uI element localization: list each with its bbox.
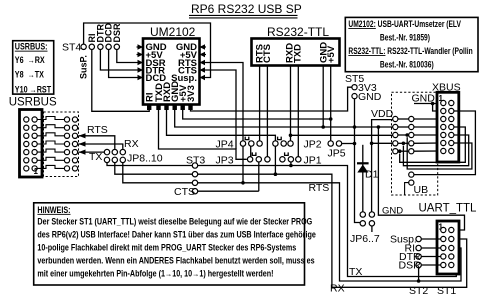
wire RX tap arrow into USRBUS row4 [79,138,139,150]
svg-text:RTS: RTS [309,182,330,194]
svg-text:DSR: DSR [112,23,122,43]
wire rail segment to dashed XBUS circle row3 [289,134,393,138]
wire JP8 row2 pin1 to ST3 pin1 [107,163,192,166]
svg-text:JP8..10: JP8..10 [127,153,163,165]
XBUS dashed-area circles column B [409,116,414,185]
wire RS232-TTL RTS drop to JP4 pin3 [259,66,261,141]
wire Susp loop: UM2102 Susp pin right, up over chip, to ST4 pin1 [84,23,211,78]
svg-text:mit einer umgekehrten Pin-Abfo: mit einer umgekehrten Pin-Abfolge (1→10,… [37,269,273,279]
wire JP5 pin2 to GND vertical [342,142,357,146]
svg-text:Best.-Nr. 810036): Best.-Nr. 810036) [380,60,434,70]
svg-text:Best.-Nr. 91859): Best.-Nr. 91859) [380,33,430,43]
wire zigzag links USRBUS to breakout pairs [37,117,64,169]
wire RS232-TTL RXD drop to JP2 pin3 [290,66,292,141]
wire DSR: ST4 pin5 down to chip DSR pin [117,50,137,63]
wire XBUS wrap W3: row6 right around bottom up to row3 link [405,133,471,169]
svg-text:USRBUS: USRBUS [9,97,57,109]
svg-text:UART_TTL: UART_TTL [419,203,478,215]
wire GND drop from rail down around to UART_TTL pin1 [377,125,465,230]
svg-text:UM2102: USB-UART-Umsetzer (ELV: UM2102: USB-UART-Umsetzer (ELV [348,19,461,29]
svg-text:ST4: ST4 [62,42,81,54]
wire RS232-TTL +5V drop to JP5 pin1 [330,66,332,141]
connector RS232-TTL module [252,25,340,66]
XBUS dashed box [392,92,438,196]
diode D1 [357,145,379,212]
wire JP2 pin1 drop to RTS line [274,146,278,176]
svg-text:TXD: TXD [293,44,304,63]
UM2102 right pin arrows and stubs [200,44,207,80]
info box UM2102 / RS232-TTL part numbers [345,17,478,71]
jumper JP3 (3 pins with cap) [216,152,271,166]
wire JP4 pin2 drop into JP3 pin1 [250,146,252,156]
svg-text:Y8 →TX: Y8 →TX [15,70,45,80]
svg-text:TX: TX [89,151,102,163]
wire XBUS wrap W1: row4 right around bottom up to row5 link [398,127,465,162]
wire UB tap: second circle with drop to dashed bottom [405,183,409,195]
wire +5V rail: chip bottom pin5 down, right to RS232-TTL +5V drop [183,110,333,121]
svg-text:des RP6(v2) USB Interface! Dah: des RP6(v2) USB Interface! Daher kann ST… [37,230,316,240]
wire UM2102 CTS: right pin down towards TXD corner [206,70,236,149]
connector XBUS header (thick box 2x7) [432,82,461,163]
svg-text:UB: UB [414,184,429,196]
jumper JP1 (3 pins with cap) label right [280,152,322,166]
connector JP6..7 (2x2 pins) [350,212,380,245]
wire RS232-TTL GND drop to GND rail [322,66,324,128]
XBUS dashed-area circles column A [393,116,398,153]
wire RTS tap arrow into USRBUS row3 [79,124,115,149]
svg-text:3V3: 3V3 [186,85,197,102]
svg-text:JP2: JP2 [304,139,322,151]
jumper JP2 (3 pins with cap) label right [273,137,322,151]
UM2102 bottom pin labels (vertical): RI TXD RXD GND +5V 3V3 [145,81,197,102]
jumper JP4 (3 pins with cap) [216,137,263,151]
wire JP9 row2 pin2 to ST3 pin2 [115,163,192,175]
wire GND rail: chip bottom pin4 down, right to dashed XBUS circle row [175,110,393,129]
svg-text:TX: TX [349,266,362,278]
svg-text:RX: RX [124,138,139,150]
svg-text:RS232-TTL: RS232-TTL-Wandler (: RS232-TTL: RS232-TTL-Wandler (Pollin [348,46,473,56]
wire TX long line: ST3 pin1 right, down, along bottom to UART pin [198,166,457,277]
svg-text:CTS: CTS [262,44,273,63]
title RP6 RS232 USB SP [189,2,302,18]
svg-text:DSR: DSR [399,260,422,272]
svg-text:verbunden werden. Wenn ein AND: verbunden werden. Wenn ein ANDERES Flach… [37,256,315,266]
wire JP1 pin2 short drop to TX line [289,162,293,167]
UM2102 pin labels right: GND +5V RTS CTS Susp. [171,42,198,84]
wire DTR: ST4 pin3 down to chip DTR pin [100,50,136,71]
svg-text:10-polige Flachkabel direkt mi: 10-polige Flachkabel direkt mit dem PROG… [37,243,296,253]
svg-text:ST2: ST2 [409,285,428,297]
svg-text:RP6 RS232 USB SP: RP6 RS232 USB SP [191,2,302,16]
connector ST4 header circles [62,42,120,54]
svg-text:JP6..7: JP6..7 [350,233,380,245]
wire CTS riser: JP3 pin2 down to CTS line [258,162,260,191]
wire RI: ST4 pin2 down to RI rail to chip bottom pin1 [92,50,149,112]
HINWEIS note box [34,203,317,285]
wire XBUS GND label link to rows 1 and 2 [414,102,441,111]
wire ST2 DSR drop to bottom line [417,268,421,283]
connector ST2 breakout pins Susp RI DTR DSR [390,234,421,272]
wire RS232-TTL TXD drop to JP1 pin3 [297,66,299,157]
UM2102 pin labels left: GND +5V DSR DTR DCD [146,42,167,84]
wire XBUS wrap W4: row2 right around bottom to UB circle [414,111,476,175]
wire branch to dashed circle row4 [370,142,393,146]
connector USRBUS header (thick box, 2x7 circles) [20,110,43,178]
wire JP4 pin1 lower drop to RX bottom line [241,146,245,184]
USRBUS legend box [13,41,54,95]
wire TX tap arrow into USRBUS row5 [79,150,105,164]
svg-text:Der Stecker ST1 (UART_TTL) wei: Der Stecker ST1 (UART_TTL) weist dieselb… [37,217,312,227]
connector ST3 (4 pins vertical) [174,155,205,199]
svg-text:ST1: ST1 [437,285,456,297]
wire VDD riser: JP6 pin2 up to dashed XBUS circle row1 [372,120,393,212]
wire ST2 pins to UART_TTL rows [421,239,440,265]
USRBUS dashed breakout box with pin pairs [44,112,79,177]
connector UART_TTL header (thick box 2x5) [419,203,478,275]
op-amp U1 : UM2102 USB-UART module body [143,25,200,105]
svg-text:RS232-TTL: RS232-TTL [267,25,329,39]
svg-text:Y6 →RX: Y6 →RX [15,55,45,65]
wire TXD: chip bottom pin2 down, right, down to JP3 pin1 [159,110,247,159]
connector JP8..10 (2x3 pins) [104,149,162,164]
svg-text:VDD: VDD [371,108,394,120]
wire links columnA-columnB-XBUS rows [398,119,441,151]
UM2102 left pin arrows and stubs [137,44,144,80]
svg-text:GND: GND [358,91,382,103]
svg-text:Y10 →RST: Y10 →RST [15,85,51,95]
svg-text:JP1: JP1 [304,155,322,167]
svg-text:RX: RX [330,283,345,295]
RS232-TTL pin labels (vertical): RTS CTS RXD TXD GND +5V [255,42,337,63]
wire CTS: ST3 pin4 right to JP3 pin2 riser [198,190,259,192]
svg-text:HINWEIS:: HINWEIS: [37,205,70,215]
jumper JP5 (2 pins) [328,141,346,160]
svg-text:JP3: JP3 [216,155,234,167]
svg-text:CTS: CTS [174,186,195,198]
svg-text:JP4: JP4 [216,139,234,151]
svg-text:+5V: +5V [326,45,337,63]
wire DCD: ST4 pin4 down to chip DCD pin [109,50,137,78]
UM2102 bottom pin stubs [147,105,193,111]
svg-text:USRBUS:: USRBUS: [15,42,48,52]
wire RS232-TTL CTS drop to JP3 pin3 [266,66,268,157]
connector ST5 (3V3 / GND) [345,73,382,103]
wire RX long line: ST3 pin3 right, down, along bottom, up to UART pin [198,183,461,295]
svg-text:GND: GND [382,206,403,217]
svg-text:JP5: JP5 [328,148,346,160]
wire JP10 row2 pin3 to ST3 pin3 [123,163,192,183]
ST4 vertical pin labels RI DTR DCD DSR [87,23,122,43]
svg-text:RTS: RTS [87,124,108,136]
wire RTS long line: ST3 pin2 right, down, along bottom, up to UART pin [198,174,467,287]
svg-text:SusP.: SusP. [79,55,89,79]
wire XBUS wrap W2: row5 right around bottom up to row4 link [402,135,469,166]
wire 3V3 rail: chip bottom pin6 down, right, up to ST5 3V3 pin [191,87,352,111]
svg-text:UM2102: UM2102 [150,25,196,39]
wire UM2102 RTS: right pin to JP4 pin1 [206,63,243,141]
wire RXD rail: chip bottom pin3 down, right, into JP2 pin1 [167,110,276,141]
wire ST5 GND down to GND rail and JP6 row2 [355,99,361,223]
